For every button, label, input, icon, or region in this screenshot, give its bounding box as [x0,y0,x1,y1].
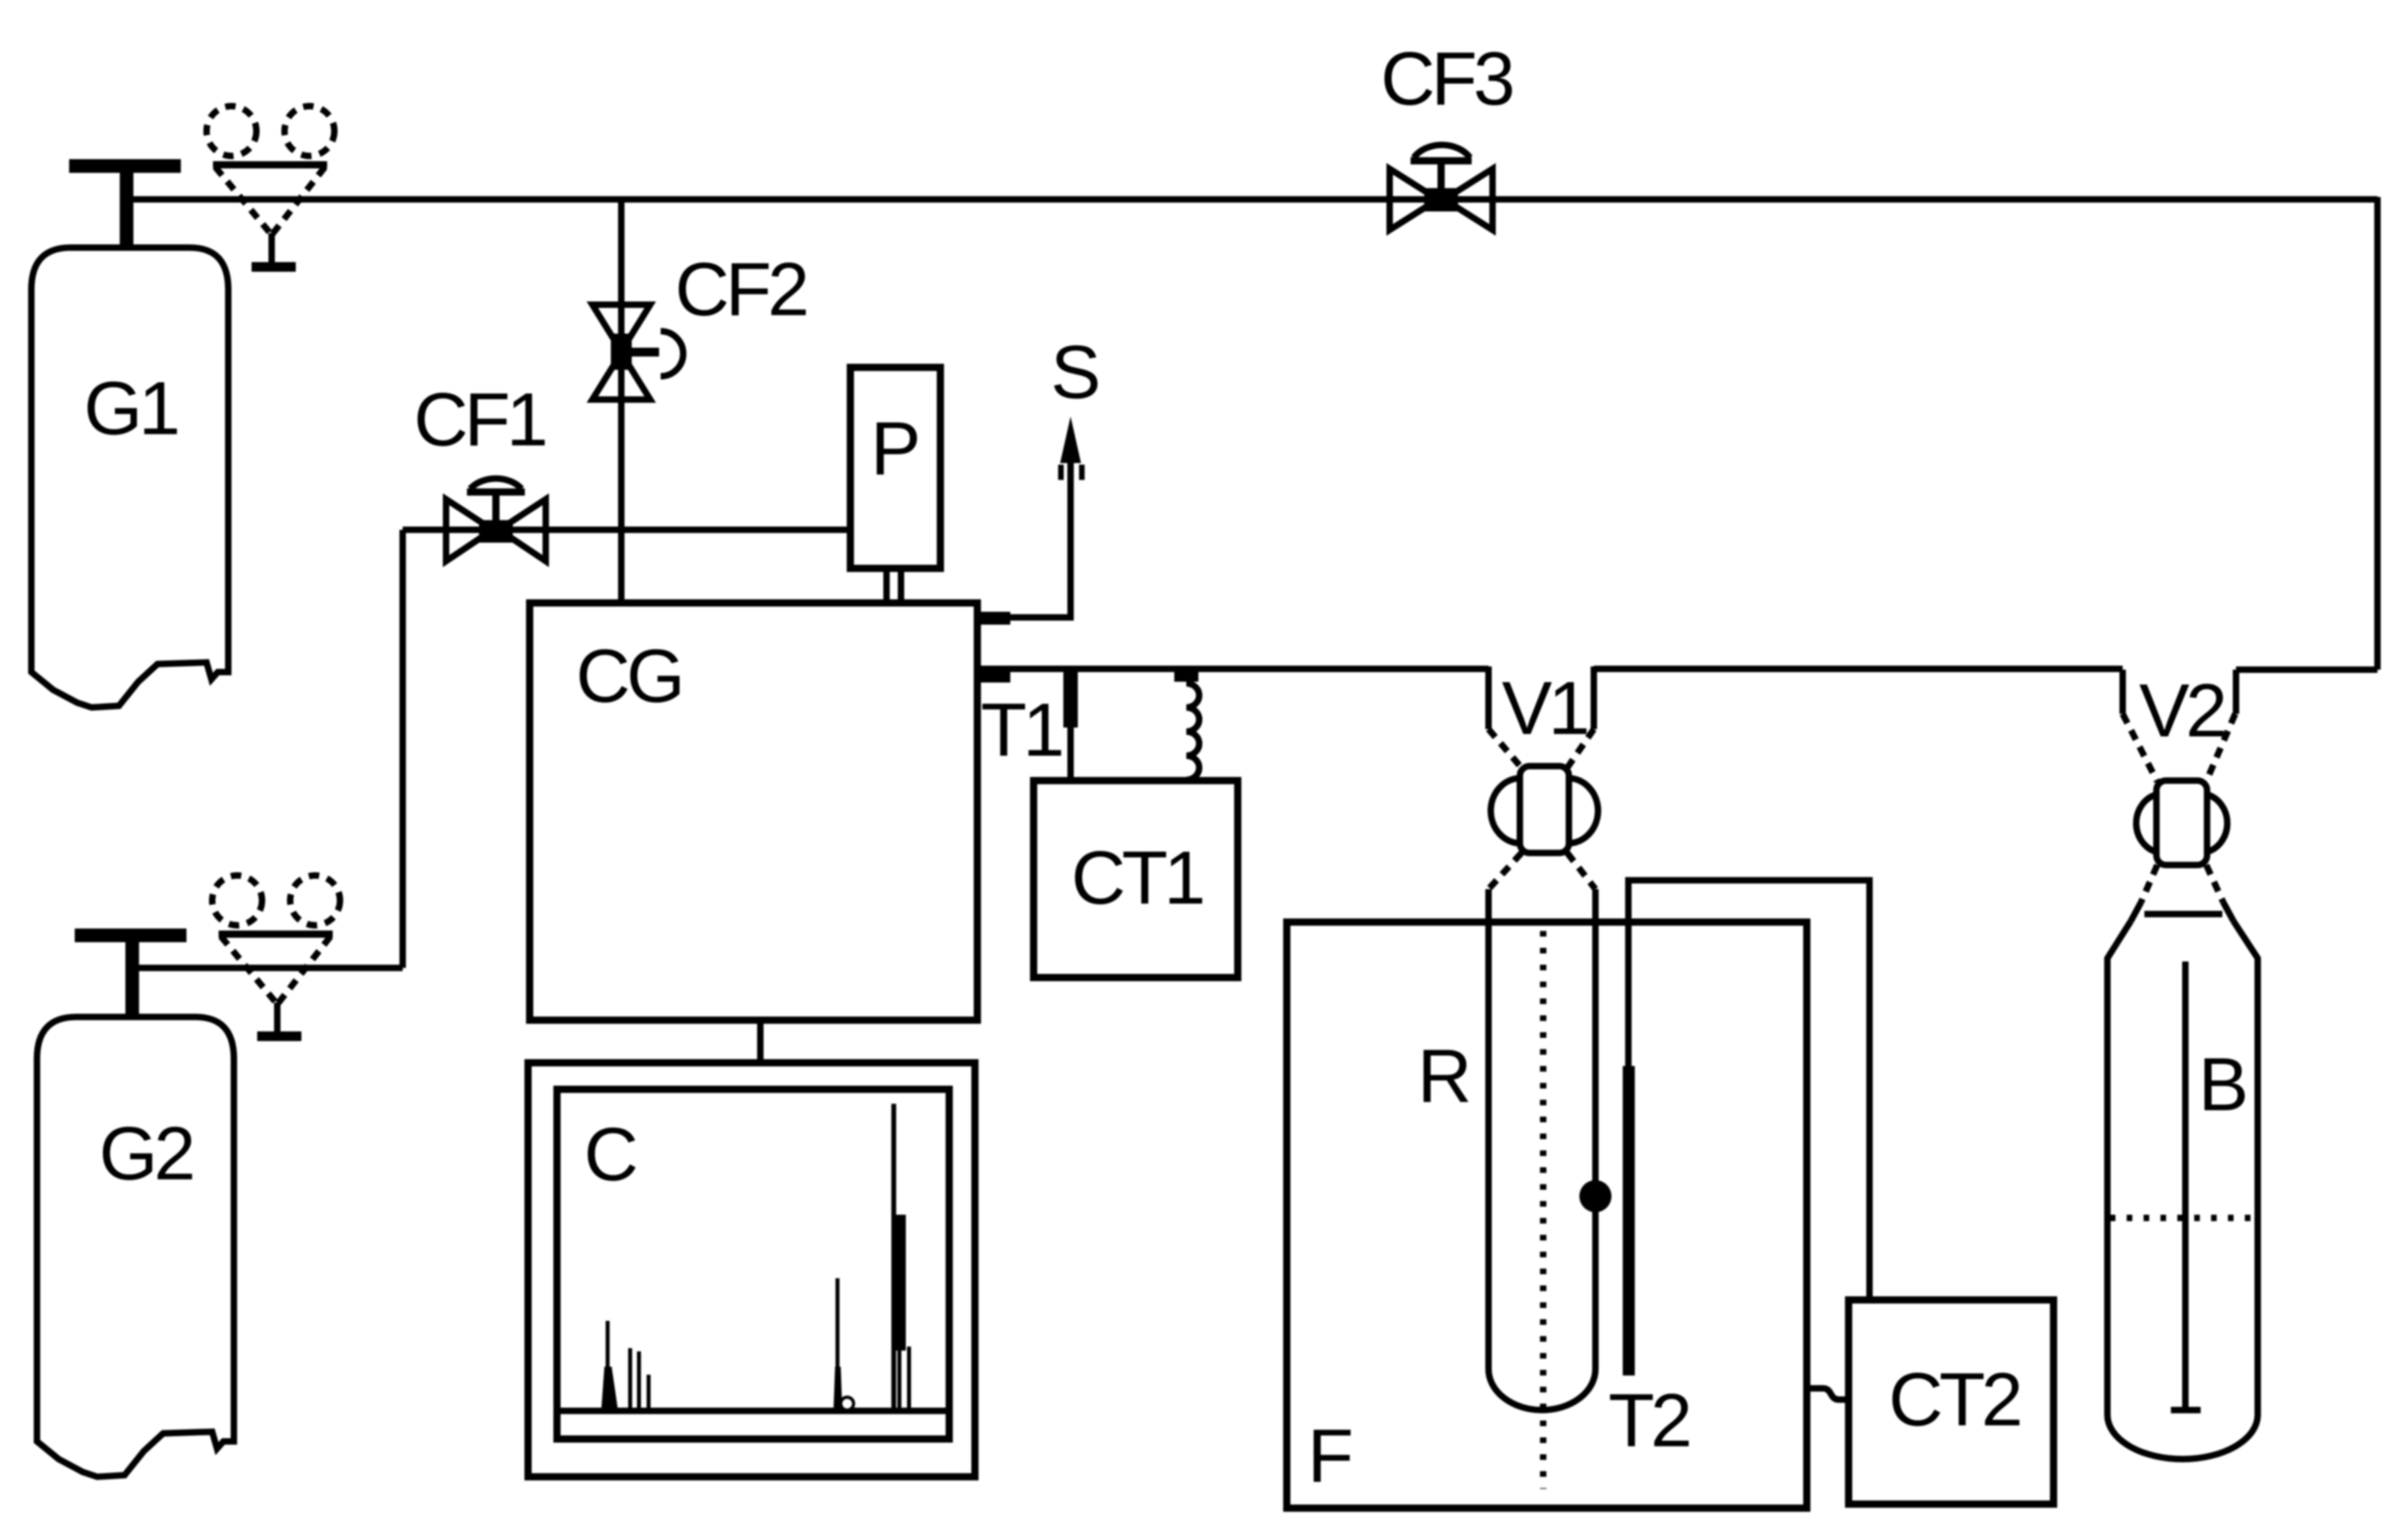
valve V2 inlet stubs [2119,670,2126,714]
valve V1 dashed cone lower [1489,853,1521,889]
temperature controller CT1 box [1034,781,1238,978]
wire: top manifold line from G1 regulator to right corner [126,196,2377,203]
svg-text:S: S [1050,330,1098,414]
chromatogram peak middle [836,1278,840,1411]
pressure gauge P box [850,367,940,568]
valve CF1 bowtie [446,499,493,561]
valve V1 ball body [1520,766,1569,853]
regulator on G1: body funnel [213,162,327,169]
svg-text:CF3: CF3 [1381,36,1513,121]
valve CF3 bowtie [1390,169,1438,230]
svg-text:C: C [584,1112,637,1196]
thermocouple T2 sheath [1623,1066,1635,1375]
wire: stem from CG to recorder C [757,1020,764,1063]
svg-text:B: B [2198,1042,2245,1126]
chromatogram recorder C screen [557,1089,949,1439]
thermocouple T1 probe [1063,671,1078,728]
valve CF2 bowtie (vertical) [592,305,650,351]
gas cylinder G2 body [37,1017,234,1477]
regulator on G2: gauge dials [212,875,262,925]
bottle B liquid level dotted [2110,1215,2255,1221]
valve V1 dashed cone upper [1489,729,1521,768]
svg-text:T2: T2 [1608,1378,1689,1462]
svg-text:P: P [870,406,917,490]
svg-text:V2: V2 [2140,668,2225,752]
wire: pipe from right drop to V2 [2236,666,2377,673]
wire: line from CF1 through crossing to pressure gauge P [403,527,850,533]
valve V2 dashed cone upper [2123,714,2157,781]
svg-text:T1: T1 [981,687,1061,772]
bottle B neck [2131,902,2141,921]
wire: CG outlet pipe to valve V1 [977,666,1489,672]
wire: branch from top line down through CF2 to CG top [618,199,625,603]
svg-text:CT1: CT1 [1071,835,1202,920]
svg-text:G2: G2 [99,1111,192,1195]
wire: pipe between V1 and V2 [1594,666,2123,672]
wire: furnace sensor link to CT2 [1807,1388,1849,1400]
wire: G2 outlet pipe [139,965,403,971]
catalyst bed marker bead [1579,1180,1611,1212]
svg-text:CF2: CF2 [675,247,806,331]
reactor tube R walls [1485,889,1492,1369]
svg-text:G1: G1 [84,366,177,450]
regulator on G2: body funnel [219,931,333,938]
svg-text:CF1: CF1 [414,377,545,461]
regulator on G1: gauge dials [207,106,256,156]
nozzle stub of S line at CG wall [979,612,1010,625]
heater coil between pipe and CT1 [1174,670,1198,682]
cylinder G1 hand valve (tee) [69,159,181,173]
svg-text:F: F [1308,1413,1351,1498]
arrow head of S vent [1060,416,1081,463]
valve CF3 handle [1438,161,1445,190]
wire: right-side drop from top line to V2 branch [2374,197,2381,670]
cylinder G2 hand valve (tee) [75,929,186,942]
chromatogram baseline [557,1408,949,1414]
svg-text:CT2: CT2 [1889,1357,2020,1441]
bottle B body [2107,921,2258,1459]
reactor axis dotted line [1540,931,1546,1489]
valve V2 ball body [2156,781,2207,865]
nozzle stub of outlet pipe at CG wall [979,670,1010,683]
svg-text:CG: CG [576,633,682,718]
temperature controller CT2 box [1849,1300,2054,1504]
gas cylinder G1 body [31,248,228,707]
valve CF2 handle [632,348,659,357]
furnace F box [1287,922,1807,1508]
valve V2 dashed cone lower [2141,865,2157,902]
svg-text:V1: V1 [1502,666,1587,750]
wire: double stem from P to CG [883,568,890,605]
chromatogram peak group left [606,1321,610,1411]
valve V1 inlet stubs [1485,666,1492,729]
chromatogram recorder C outer box [528,1063,975,1477]
wire: riser from G2 regulator up to CF1 [399,530,406,968]
wire: thermocouple T2 lead to CT2 [1628,880,1869,1300]
chromatogram peak group right [891,1104,896,1411]
wire: sampling vent line S from CG [1009,459,1071,617]
gas chromatograph sampling cell CG [530,603,977,1020]
svg-text:R: R [1418,1034,1469,1118]
valve CF1 handle [493,492,500,523]
bottle B dip tube [2182,961,2189,1410]
